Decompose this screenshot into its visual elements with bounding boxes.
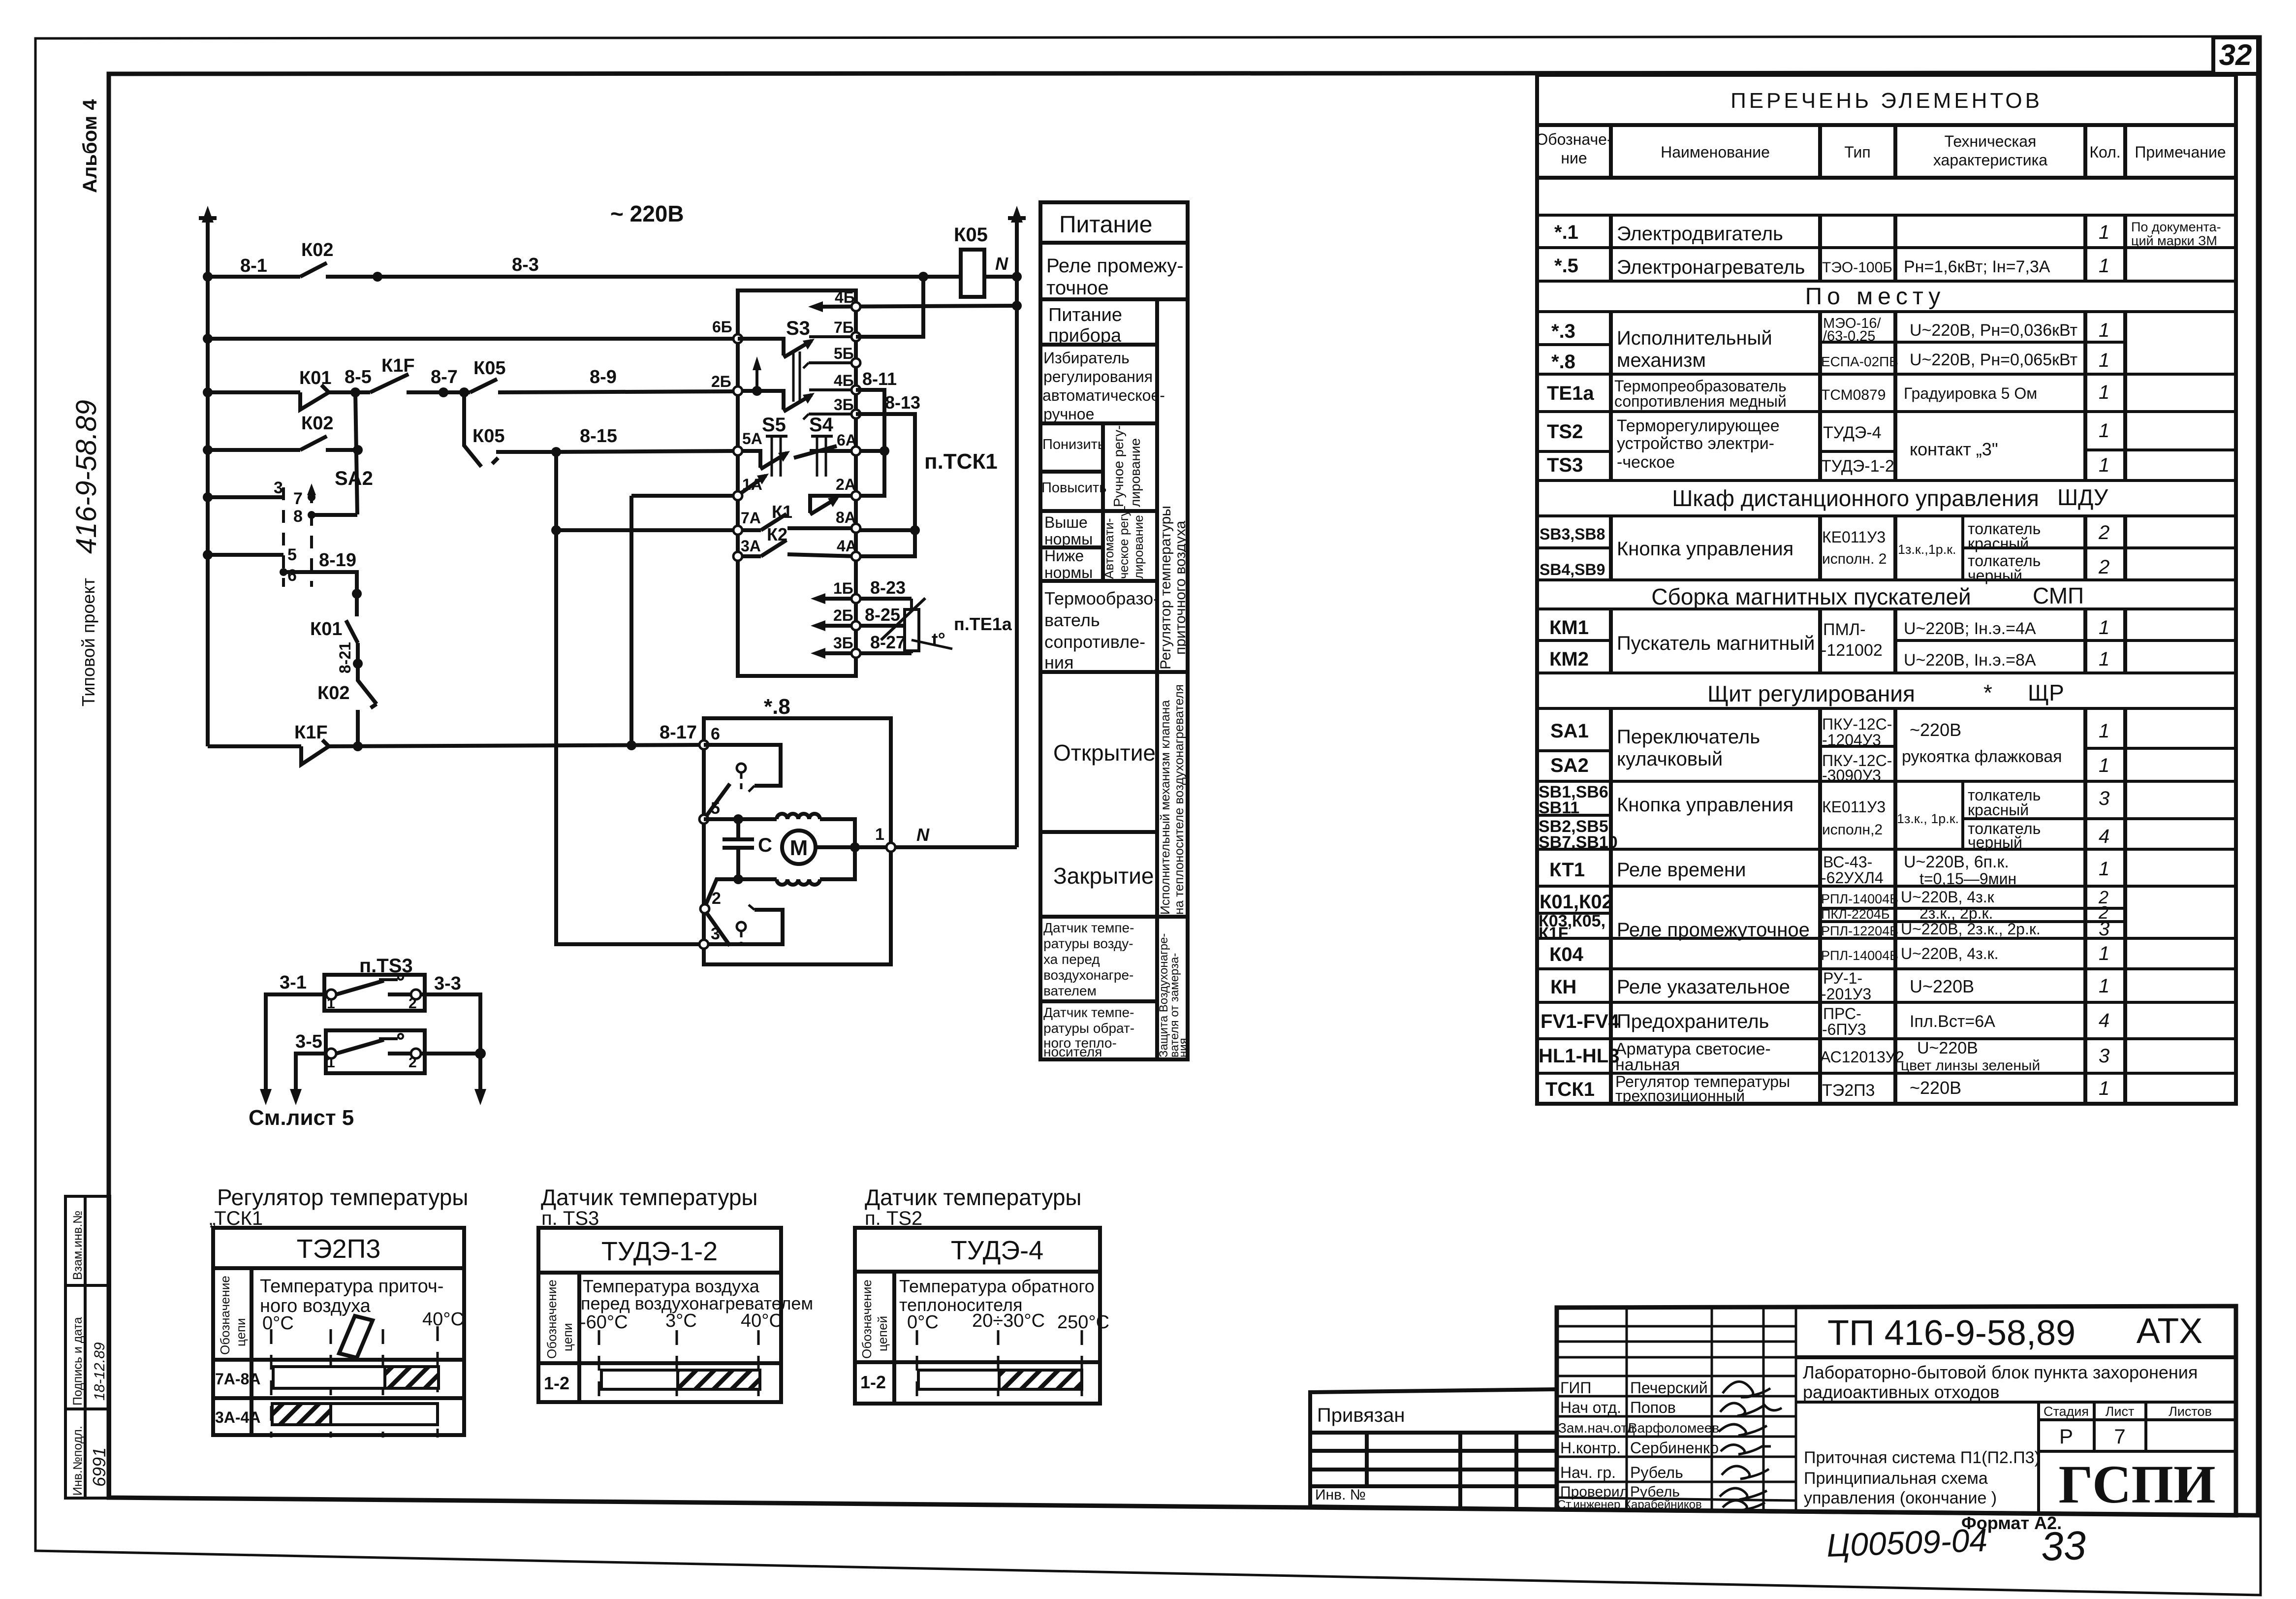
svg-text:-6ПУ3: -6ПУ3 (1822, 1021, 1866, 1038)
actuator terminal 3 (699, 925, 720, 949)
svg-text:1: 1 (2099, 648, 2109, 670)
svg-text:Температура приточ-: Температура приточ- (260, 1276, 443, 1297)
margin stamp labels (71, 1211, 109, 1496)
svg-text:на теплоносителе воздухонагр: на теплоносителе воздухонагревателя (1171, 684, 1186, 915)
svg-text:РПЛ-12204Б: РПЛ-12204Б (1821, 924, 1898, 938)
contact K05 row3 (443, 379, 497, 392)
wire SA2 row7 (208, 495, 283, 499)
svg-text:1: 1 (2099, 320, 2109, 341)
svg-text:ВС-43-: ВС-43- (1823, 853, 1872, 871)
svg-text:1: 1 (327, 995, 335, 1012)
svg-text:Датчик темпе-: Датчик темпе- (1043, 1005, 1134, 1020)
svg-text:Пускатель магнитный: Пускатель магнитный (1617, 633, 1815, 654)
svg-text:красный: красный (1968, 535, 2029, 552)
terminal 1B bottom (811, 577, 912, 604)
row KM2 (1549, 648, 2109, 670)
svg-text:3°С: 3°С (665, 1311, 697, 1331)
left supply bus (199, 215, 217, 746)
aux winding (738, 879, 820, 885)
svg-text:8-5: 8-5 (345, 367, 372, 387)
svg-text:3Б: 3Б (833, 634, 853, 652)
svg-text:Листов: Листов (2169, 1404, 2212, 1419)
cell Датчик температуры обратного (1043, 1005, 1134, 1059)
svg-text:Попов: Попов (1630, 1399, 1676, 1416)
TSK1 bar 7A-8A (273, 1367, 439, 1388)
row *.1 electric motor (1554, 222, 2109, 245)
svg-text:Терморегулирующее: Терморегулирующее (1617, 416, 1780, 435)
svg-text:М: М (790, 836, 808, 860)
svg-text:К1F: К1F (381, 355, 415, 376)
svg-text:ций марки ЗМ: ций марки ЗМ (2131, 233, 2217, 248)
svg-text:Обозначе-: Обозначе- (1536, 130, 1612, 148)
junction 8-19 (352, 589, 362, 599)
junction motor right (850, 842, 860, 852)
TS3 bar (601, 1370, 760, 1389)
svg-text:S4: S4 (809, 414, 834, 436)
wire node5 (704, 817, 777, 821)
wire SA2 row5 (208, 553, 283, 557)
svg-text:7А: 7А (741, 509, 761, 527)
TS2 bar (918, 1370, 1082, 1389)
SA2 pin 7 (293, 489, 315, 508)
signatures squiggles (1719, 1381, 1782, 1510)
wire 7B to row1 (856, 277, 923, 337)
svg-text:8-9: 8-9 (590, 367, 617, 387)
svg-text:SВ11: SВ11 (1539, 799, 1579, 817)
S5 contacts (738, 451, 787, 493)
actuator terminal 2 (700, 889, 721, 913)
contact K02 vertical NC (358, 664, 377, 746)
svg-text:Щит регулирования: Щит регулирования (1707, 681, 1915, 706)
svg-text:Ц00509-04: Ц00509-04 (1826, 1522, 1988, 1564)
svg-text:АТХ: АТХ (2137, 1311, 2202, 1351)
svg-text:точное: точное (1046, 277, 1109, 299)
svg-text:ЩР: ЩР (2028, 680, 2064, 705)
junction 7A riser (551, 525, 561, 535)
actuator terminal 6 (699, 725, 720, 749)
terminal 5A (733, 430, 762, 455)
junction row3 bus (203, 387, 213, 397)
svg-text:сопротивления медный: сопротивления медный (1614, 392, 1787, 410)
svg-text:U~220В, 2з.к., 2р.к.: U~220В, 2з.к., 2р.к. (1901, 920, 2041, 938)
svg-text:*.5: *.5 (1554, 255, 1578, 277)
svg-text:Шкаф дистанционного управлен: Шкаф дистанционного управления (1672, 485, 2039, 511)
capacitor C (723, 819, 754, 879)
svg-text:40°С: 40°С (741, 1311, 783, 1331)
svg-text:1: 1 (2099, 858, 2109, 880)
junction K1F-K02 (353, 741, 363, 751)
cell Реле промежуточное (1046, 255, 1184, 299)
svg-text:1з.к.,1р.к.: 1з.к.,1р.к. (1898, 542, 1956, 557)
row TS2 (1547, 416, 2109, 459)
thermostat TS3 box2 (326, 1030, 425, 1073)
svg-text:U~220В: U~220В (1917, 1039, 1978, 1057)
svg-text:6: 6 (711, 725, 720, 743)
svg-text:Ручное регу-: Ручное регу- (1111, 425, 1126, 507)
svg-text:ТСМ0879: ТСМ0879 (1821, 387, 1886, 403)
junction row1 mid (373, 272, 382, 282)
svg-text:С: С (758, 834, 772, 856)
sensor chart TSK1 frame (213, 1228, 464, 1435)
svg-text:Стадия: Стадия (2044, 1404, 2089, 1419)
svg-text:ПМЛ-: ПМЛ- (1823, 620, 1865, 639)
row HL1-HL3 (1539, 1039, 2109, 1074)
row K03,K05,K1F (1539, 912, 2109, 943)
svg-text:Сборка магнитных пускателей: Сборка магнитных пускателей (1651, 584, 1971, 609)
svg-text:ТУДЭ-1-2: ТУДЭ-1-2 (601, 1237, 718, 1266)
svg-text:РПЛ-14004Б: РПЛ-14004Б (1821, 892, 1898, 906)
wire row3 start (208, 390, 300, 394)
svg-text:ЕСПА-02ПВ: ЕСПА-02ПВ (1821, 354, 1898, 369)
wire 8-15 to 5A (556, 451, 738, 452)
svg-text:1: 1 (2099, 755, 2109, 776)
svg-text:ТЭО-100Б: ТЭО-100Б (1822, 259, 1892, 276)
SA2 position arrow (307, 483, 316, 497)
svg-text:ния: ния (1044, 652, 1073, 672)
section SMP (1651, 583, 2084, 609)
svg-text:Привязан: Привязан (1317, 1405, 1405, 1426)
stadia values (2059, 1425, 2126, 1448)
wire row4 K02 (208, 436, 358, 450)
rotated Исполнительный механизм клапана (1158, 684, 1186, 915)
svg-text:КТ1: КТ1 (1549, 859, 1585, 881)
svg-text:416-9-58.89: 416-9-58.89 (70, 400, 102, 554)
row SB1,SB6,SB11 (1539, 783, 2109, 838)
svg-text:*.8: *.8 (1551, 351, 1575, 373)
svg-text:К05: К05 (473, 358, 505, 379)
margin stamp table (65, 1196, 110, 1498)
sensor chart TS3 title (541, 1184, 757, 1229)
svg-text:ТП 416-9-58,89: ТП 416-9-58,89 (1827, 1313, 2076, 1353)
lower cam actuator (737, 922, 746, 943)
terminal 2B left (711, 373, 742, 395)
svg-text:1: 1 (2099, 222, 2109, 243)
svg-text:2А: 2А (836, 476, 856, 493)
svg-text:S3: S3 (786, 318, 810, 339)
cell Ниже нормы (1044, 547, 1093, 581)
wire 3-5 (296, 1054, 326, 1097)
row SA2 (1550, 748, 2109, 784)
svg-text:Рубель: Рубель (1630, 1464, 1683, 1481)
contact K02 row1 (300, 263, 377, 277)
terminal 8A (836, 509, 860, 533)
svg-text:2Б: 2Б (833, 607, 853, 624)
svg-text:исполн,2: исполн,2 (1822, 822, 1883, 838)
svg-text:N: N (995, 254, 1008, 274)
svg-text:вателем: вателем (1043, 983, 1097, 998)
rotated Защита воздухонагревателя (1157, 933, 1190, 1057)
svg-text:Инв.№подл.: Инв.№подл. (71, 1426, 85, 1496)
contact K2 (738, 540, 856, 556)
svg-text:~ 220В: ~ 220В (610, 201, 684, 226)
terminal 1A (733, 476, 762, 500)
row *.5 heater (1554, 255, 2109, 278)
svg-text:СМП: СМП (2033, 583, 2084, 608)
svg-text:регулирования: регулирования (1043, 368, 1153, 385)
svg-text:3: 3 (2099, 788, 2109, 809)
svg-text:6Б: 6Б (712, 318, 732, 336)
wire coil K05 to N bus (984, 275, 1017, 279)
svg-text:8А: 8А (836, 509, 856, 526)
svg-text:К04: К04 (1549, 944, 1584, 965)
rotated Ручное регулирование (1111, 425, 1143, 507)
svg-text:Градуировка 5 Ом: Градуировка 5 Ом (1904, 384, 2037, 402)
wire row2 bus to 6B (208, 337, 738, 341)
rotated Регулятор температуры приточного воздуха (1158, 506, 1189, 670)
svg-text:Датчик темпе-: Датчик темпе- (1043, 920, 1134, 935)
svg-text:приточного воздуха: приточного воздуха (1172, 520, 1189, 655)
svg-text:S5: S5 (762, 414, 786, 436)
TS2 graph labels (899, 1276, 1109, 1333)
title block line under number (1796, 1355, 2236, 1359)
svg-text:ние: ние (1561, 149, 1587, 167)
svg-text:Принципиальная схема: Принципиальная схема (1804, 1469, 1988, 1488)
contact K01 row3 (NC) (300, 385, 355, 410)
svg-text:1: 1 (875, 825, 884, 844)
junction 8-7 (439, 387, 448, 397)
svg-text:3-1: 3-1 (280, 972, 307, 993)
terminal 6A (837, 431, 860, 455)
junction row1 7B branch (918, 272, 928, 282)
svg-text:нормы: нормы (1044, 530, 1093, 548)
junction 8-13 8A (910, 525, 920, 535)
svg-text:носителя: носителя (1043, 1044, 1102, 1059)
svg-text:/63-0,25: /63-0,25 (1823, 328, 1875, 344)
svg-text:ТУДЭ-4: ТУДЭ-4 (951, 1236, 1043, 1265)
svg-text:5: 5 (711, 799, 720, 818)
margin label 416-9-58.89 (70, 400, 102, 554)
junction node5 (733, 814, 743, 824)
TSK1 parallelogram symbol (339, 1316, 373, 1358)
signature table labels (1557, 1379, 1719, 1511)
upper cam actuator (737, 764, 746, 792)
svg-text:3: 3 (711, 925, 720, 943)
svg-text:ческое регу-: ческое регу- (1116, 506, 1131, 579)
svg-text:5А: 5А (742, 430, 762, 448)
TS2 dashed grid (917, 1330, 1082, 1406)
cell Термообразователь сопротивления (1044, 588, 1159, 672)
svg-text:Автомати-: Автомати- (1101, 518, 1116, 579)
row K04 (1549, 943, 2109, 965)
svg-text:ручное: ручное (1043, 405, 1094, 423)
svg-text:К02: К02 (301, 240, 333, 260)
svg-text:8-23: 8-23 (870, 577, 906, 598)
svg-text:Понизить: Понизить (1042, 437, 1105, 452)
svg-text:1: 1 (2099, 350, 2109, 371)
junction aux node (733, 874, 743, 884)
svg-text:U~220В; Iн.э.=4А: U~220В; Iн.э.=4А (1904, 619, 2036, 638)
margin label Типовой проект (78, 578, 98, 706)
title grid stadia (1796, 1402, 2236, 1513)
svg-text:характеристика: характеристика (1933, 151, 2047, 169)
sensor chart TS2 frame (855, 1228, 1100, 1404)
junction 8-17 (627, 740, 636, 750)
svg-text:4: 4 (2099, 826, 2109, 847)
junction SA2 row7 bus (203, 492, 213, 502)
svg-text:трехпозиционный: трехпозиционный (1615, 1087, 1745, 1105)
svg-text:1: 1 (2099, 975, 2109, 997)
svg-text:U~220В, 4з.к: U~220В, 4з.к (1901, 888, 1995, 906)
svg-text:6: 6 (287, 566, 297, 585)
svg-text:нальная: нальная (1615, 1055, 1680, 1074)
svg-text:Исполнительный: Исполнительный (1617, 327, 1772, 349)
svg-text:0°С: 0°С (262, 1313, 294, 1334)
svg-text:ПРС-: ПРС- (1823, 1005, 1861, 1023)
svg-text:-121002: -121002 (1821, 641, 1883, 660)
row FV1-FV4 (1541, 1005, 2109, 1038)
terminal 3B (803, 396, 860, 419)
svg-text:К1F: К1F (1539, 924, 1568, 943)
svg-text:8-13: 8-13 (885, 392, 920, 413)
svg-text:сопротивле-: сопротивле- (1044, 632, 1145, 652)
svg-text:воздухонагре-: воздухонагре- (1043, 967, 1133, 983)
svg-text:Выше: Выше (1044, 513, 1088, 531)
svg-text:К1F: К1F (294, 722, 328, 743)
contact K1 (738, 514, 856, 530)
contact K01 vertical (346, 620, 358, 664)
switch S4 (811, 436, 833, 477)
svg-text:НL1-НL3: НL1-НL3 (1539, 1045, 1619, 1067)
svg-text:U~220В, 6п.к.: U~220В, 6п.к. (1904, 853, 2009, 871)
svg-text:п.ТСК1: п.ТСК1 (924, 449, 998, 474)
wire 8-11 (856, 390, 884, 496)
svg-text:t=0,15—9мин: t=0,15—9мин (1919, 870, 2016, 888)
cell Питание прибора (1048, 305, 1122, 346)
svg-text:По документа-: По документа- (2131, 220, 2221, 234)
svg-text:SА2: SА2 (1550, 755, 1589, 776)
svg-text:1Б: 1Б (833, 579, 853, 597)
svg-text:N: N (916, 825, 930, 845)
row SB3,SB8 (1540, 520, 2109, 567)
svg-text:ТУДЭ-1-2: ТУДЭ-1-2 (1821, 457, 1894, 476)
privyazan labels (1315, 1405, 1405, 1503)
svg-text:Датчик температуры: Датчик температуры (541, 1184, 757, 1210)
svg-text:Лист: Лист (2106, 1404, 2135, 1419)
svg-text:3-3: 3-3 (434, 973, 461, 994)
svg-text:КМ1: КМ1 (1549, 617, 1589, 639)
svg-text:3: 3 (2099, 1045, 2109, 1067)
svg-text:*.3: *.3 (1551, 320, 1575, 342)
svg-text:8-15: 8-15 (580, 426, 617, 447)
svg-text:ния: ния (1177, 1038, 1190, 1057)
svg-text:ПКУ-12С-: ПКУ-12С- (1822, 715, 1892, 733)
svg-text:Подпись и дата: Подпись и дата (71, 1317, 85, 1406)
junction row4 vert (353, 445, 363, 455)
svg-text:-60°С: -60°С (580, 1312, 628, 1333)
svg-text:1А: 1А (742, 476, 762, 493)
svg-text:-ческое: -ческое (1617, 453, 1675, 472)
svg-text:8-25: 8-25 (865, 605, 900, 625)
svg-text:К05: К05 (472, 426, 504, 447)
svg-text:черный: черный (1968, 833, 2022, 851)
svg-text:-201У3: -201У3 (1821, 985, 1871, 1003)
svg-text:черный: черный (1968, 567, 2022, 584)
svg-text:Нач отд.: Нач отд. (1560, 1399, 1621, 1416)
cell Выше нормы (1044, 513, 1093, 548)
row K01,K02 (1540, 887, 2108, 941)
svg-text:К02: К02 (317, 683, 349, 704)
svg-text:Переключатель: Переключатель (1617, 726, 1760, 748)
svg-text:Избиратель: Избиратель (1043, 349, 1130, 367)
junction row2 bus (203, 334, 213, 344)
TSK1 rotated col label (218, 1276, 248, 1355)
row KM1 (1549, 617, 2109, 660)
wire 3-1 (266, 994, 326, 1097)
svg-text:КЕ011У3: КЕ011У3 (1822, 528, 1886, 546)
svg-text:*: * (1983, 680, 1992, 705)
terminal 6B (712, 318, 742, 343)
svg-text:радиоактивных отходов: радиоактивных отходов (1803, 1382, 2000, 1402)
svg-text:ГСПИ: ГСПИ (2058, 1454, 2215, 1514)
svg-text:ГИП: ГИП (1560, 1379, 1591, 1397)
svg-text:3-5: 3-5 (295, 1031, 322, 1052)
svg-text:КМ2: КМ2 (1549, 648, 1589, 670)
svg-text:Температура обратного: Температура обратного (899, 1276, 1095, 1296)
svg-text:8: 8 (293, 507, 303, 526)
svg-text:4Б: 4Б (835, 288, 855, 306)
svg-text:прибора: прибора (1048, 325, 1122, 346)
right bus top arrow (1011, 206, 1023, 223)
svg-text:8-19: 8-19 (319, 550, 356, 571)
wire row1 8-3 (377, 275, 961, 279)
wire 3-3 (421, 994, 480, 1097)
svg-text:ТЭ2П3: ТЭ2П3 (1822, 1081, 1875, 1100)
svg-text:8-11: 8-11 (862, 369, 897, 389)
TS3 dashed grid (599, 1330, 758, 1404)
svg-text:Кнопка управления: Кнопка управления (1617, 538, 1793, 560)
svg-text:8-21: 8-21 (336, 642, 354, 673)
junction 8-5 (350, 387, 360, 397)
thermostat TS3 box1 (324, 975, 425, 1012)
svg-text:Карабейников: Карабейников (1624, 1498, 1702, 1511)
TSK1 dashed grid (271, 1326, 438, 1438)
svg-text:0°С: 0°С (907, 1312, 939, 1333)
svg-text:4А: 4А (837, 537, 857, 555)
svg-text:К1: К1 (772, 502, 792, 522)
svg-text:Ниже: Ниже (1044, 547, 1084, 565)
row KN (1550, 969, 2109, 1003)
junction 8-21 (353, 659, 363, 669)
wire 8-13 (856, 414, 915, 556)
terminal 4B top row to N bus (808, 288, 1017, 312)
actuator terminal 5 (699, 799, 720, 824)
rotated Автоматическое регулирование (1101, 506, 1146, 579)
SA2 pin 8 and wire to vertical (293, 507, 357, 526)
sheet number box 32 (2213, 37, 2258, 74)
TS3 graph labels (580, 1276, 813, 1333)
lower limit contact (705, 905, 783, 946)
title system name (1804, 1448, 2040, 1507)
wire row3 8-9 to 2B (498, 391, 738, 392)
svg-text:Типовой проект: Типовой проект (78, 578, 98, 706)
svg-text:Закрытие: Закрытие (1053, 863, 1154, 889)
svg-text:40°С: 40°С (422, 1309, 464, 1330)
junction row4 bus (203, 445, 213, 455)
svg-text:~220В: ~220В (1910, 720, 1961, 740)
svg-text:ПКЛ-2204Б: ПКЛ-2204Б (1821, 907, 1890, 922)
svg-text:красный: красный (1968, 801, 2029, 819)
TS3 rotated col label (544, 1279, 575, 1359)
svg-text:ТУДЭ-4: ТУДЭ-4 (1823, 423, 1882, 442)
svg-text:управления (окончание ): управления (окончание ) (1804, 1489, 1997, 1507)
svg-text:1: 1 (2099, 454, 2109, 476)
svg-text:Печерский: Печерский (1630, 1379, 1708, 1397)
svg-text:К2: К2 (767, 524, 787, 544)
svg-text:*.8: *.8 (764, 695, 790, 719)
svg-text:t°: t° (932, 630, 945, 650)
svg-text:FV1-FV4: FV1-FV4 (1541, 1011, 1620, 1032)
left bus top arrow (202, 206, 214, 223)
